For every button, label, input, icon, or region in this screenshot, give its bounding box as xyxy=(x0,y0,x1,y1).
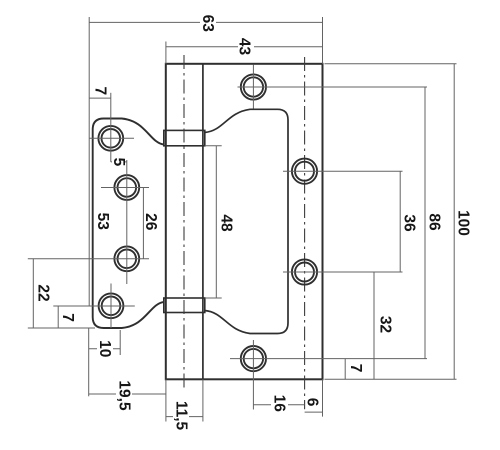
knuckle bottom band xyxy=(164,298,205,313)
label 16 xyxy=(271,392,288,414)
left leaf outline xyxy=(93,119,165,329)
dim 48 line xyxy=(215,146,217,298)
crosshair hole A vertical xyxy=(110,93,112,162)
crosshair hole C horizontal / 22-26 connector xyxy=(28,258,149,260)
crosshair hole A horizontal / 53 top connector xyxy=(89,137,134,139)
svg-text:5: 5 xyxy=(110,158,127,167)
hole D left leaf bottom xyxy=(99,293,124,318)
hole M2 right leaf middle lower xyxy=(292,259,317,284)
top edge right extension xyxy=(325,63,457,65)
dim 7 bottom right line xyxy=(344,359,346,380)
dim 48 top connector xyxy=(205,145,222,147)
crosshair hole Bo vertical / 16 extension xyxy=(252,340,254,410)
crosshair hole D vertical xyxy=(110,284,112,329)
crosshair holes B C vertical xyxy=(126,160,128,284)
dim 63 right extension xyxy=(322,17,324,64)
label 11,5 xyxy=(172,398,189,435)
crosshair hole T horizontal / 86 top connector xyxy=(238,86,428,88)
dim 43 line xyxy=(166,46,323,48)
left edge lower extension column xyxy=(88,328,90,396)
hole C left leaf lower middle xyxy=(114,246,139,271)
svg-text:7: 7 xyxy=(347,364,364,373)
hole A left leaf top xyxy=(98,126,123,151)
dim 100 line xyxy=(453,64,455,380)
dim 43 left extension xyxy=(165,42,167,64)
knuckle right lower extension xyxy=(202,379,204,421)
dim 16 line xyxy=(253,404,304,406)
hole Bo right leaf bottom xyxy=(241,346,266,371)
svg-text:7: 7 xyxy=(59,313,76,322)
dim 22 line xyxy=(32,259,34,328)
dim 7 left line xyxy=(57,306,59,328)
screw column center line xyxy=(304,57,306,409)
hole B left leaf upper middle xyxy=(114,175,139,200)
svg-text:53: 53 xyxy=(94,213,111,231)
dim 63 left extension column xyxy=(88,17,90,138)
crosshair hole M1 horizontal / 36 top connector xyxy=(283,170,403,172)
dim 53 line xyxy=(88,138,90,306)
right edge lower extension xyxy=(322,379,324,416)
crosshair hole M2 horizontal / 36-32 connector xyxy=(283,271,403,273)
svg-text:26: 26 xyxy=(142,213,159,231)
dim 86 line xyxy=(424,87,426,359)
dim 19,5 line xyxy=(89,393,166,395)
svg-text:10: 10 xyxy=(96,340,113,357)
svg-text:36: 36 xyxy=(401,214,418,232)
dim 10 right extension xyxy=(119,330,121,355)
dim 6 line xyxy=(305,411,323,413)
bottom edge right extension xyxy=(325,378,457,380)
hinge pin center line xyxy=(183,55,185,391)
label 5 xyxy=(110,155,127,169)
knuckle left lower extension xyxy=(165,379,167,421)
svg-text:6: 6 xyxy=(303,398,320,407)
dim 36 line xyxy=(399,171,401,272)
crosshair hole B horizontal / 26 top connector xyxy=(101,187,149,189)
svg-text:86: 86 xyxy=(426,213,443,231)
svg-text:100: 100 xyxy=(455,210,472,236)
label 10 xyxy=(96,338,113,359)
dim 10 line xyxy=(89,348,121,350)
knuckle top band xyxy=(164,130,205,145)
label 43 xyxy=(236,37,255,56)
label 63 xyxy=(199,14,216,33)
right leaf outline xyxy=(166,64,323,380)
dim 63 line xyxy=(89,21,322,23)
dim 11,5 line xyxy=(166,416,203,418)
svg-text:63: 63 xyxy=(199,15,216,33)
dim 7 top line xyxy=(89,97,111,99)
crosshair hole D horizontal / 53-7 connector xyxy=(53,305,135,307)
left bottom reference extension xyxy=(28,327,95,329)
dim 32 line xyxy=(373,272,375,379)
label 19,5 xyxy=(115,376,132,416)
knuckle inner edge xyxy=(202,64,204,380)
svg-text:7: 7 xyxy=(92,86,109,95)
hole M1 right leaf middle upper xyxy=(292,159,317,184)
cutout in right leaf xyxy=(205,109,288,333)
svg-text:32: 32 xyxy=(377,316,394,333)
hole T right leaf top xyxy=(241,74,266,99)
svg-text:48: 48 xyxy=(217,214,234,232)
svg-text:22: 22 xyxy=(35,284,52,301)
svg-text:43: 43 xyxy=(236,38,253,56)
svg-text:16: 16 xyxy=(271,395,288,413)
svg-text:19,5: 19,5 xyxy=(115,380,132,411)
dim 48 bottom connector xyxy=(205,297,222,299)
dim 5 line xyxy=(111,161,127,163)
crosshair hole Bo horizontal / 86 bottom connector xyxy=(230,358,427,360)
dim 26 line xyxy=(142,188,144,259)
svg-text:11,5: 11,5 xyxy=(172,401,189,431)
crosshair hole T vertical xyxy=(252,65,254,109)
